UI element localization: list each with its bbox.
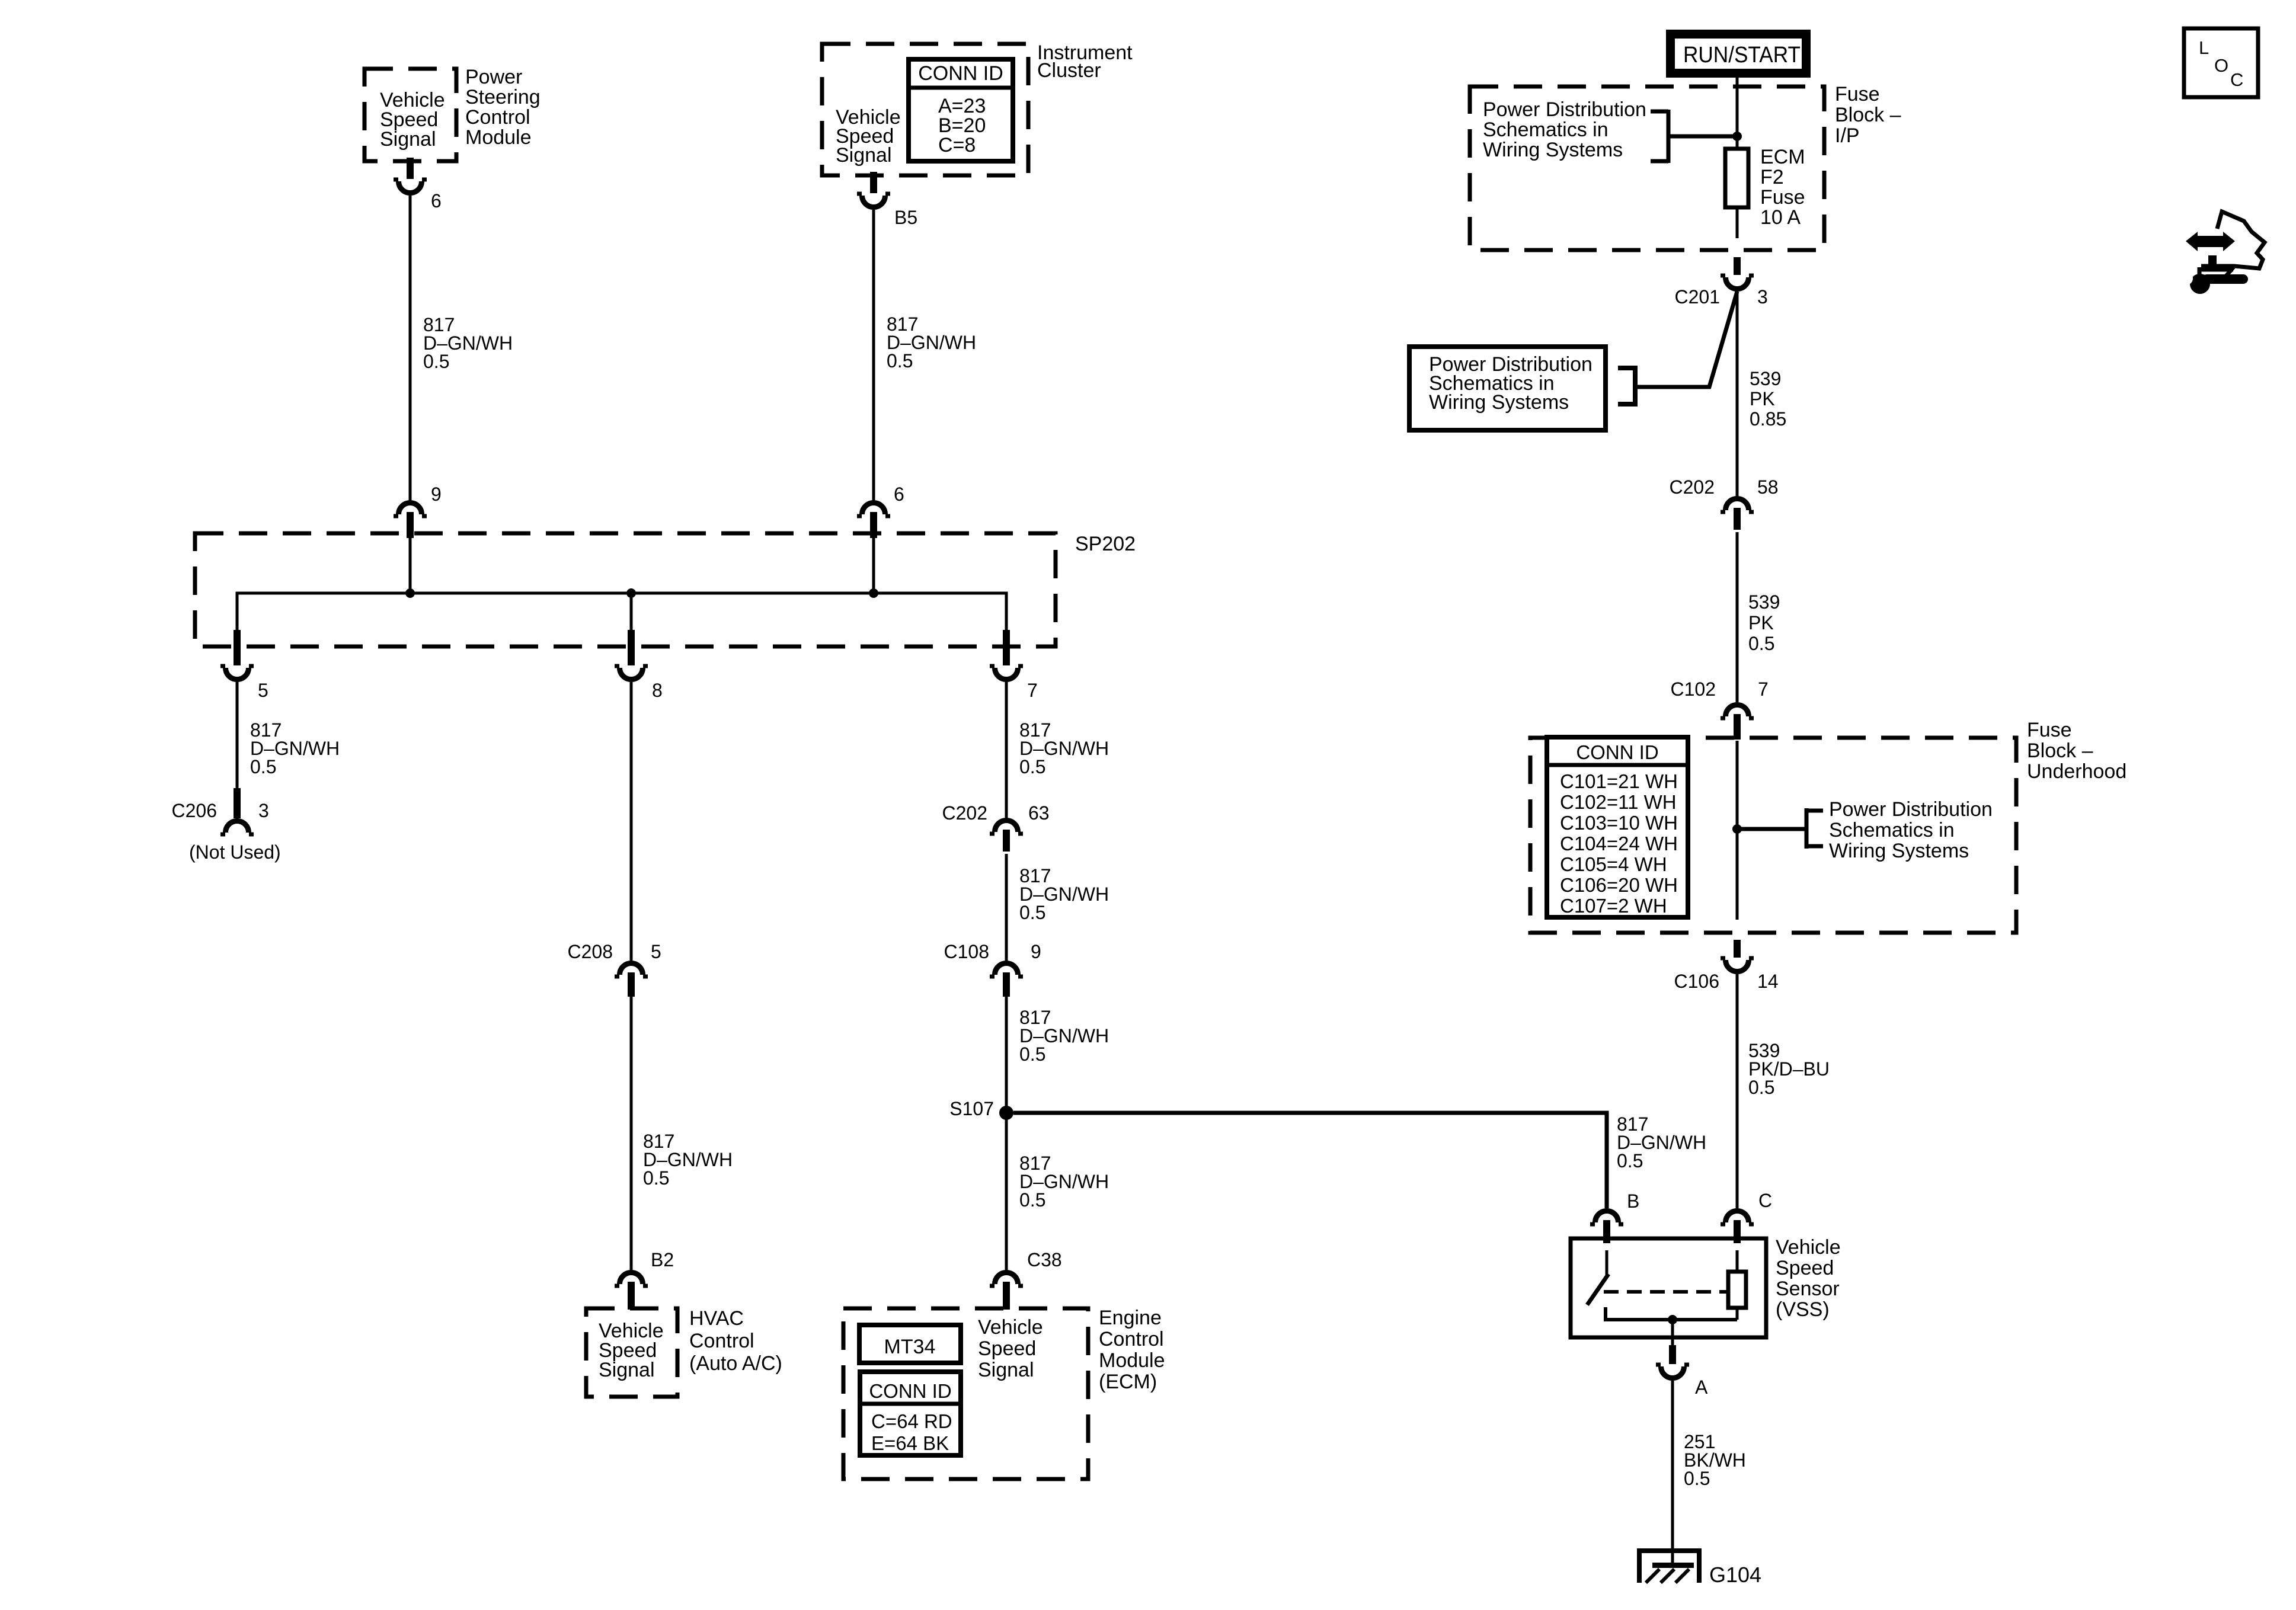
svg-text:B2: B2 xyxy=(651,1249,674,1270)
svg-text:G104: G104 xyxy=(1709,1563,1761,1587)
svg-text:C202: C202 xyxy=(1670,476,1715,498)
svg-text:I/P: I/P xyxy=(1835,124,1860,147)
svg-text:C102=11 WH: C102=11 WH xyxy=(1560,791,1677,813)
svg-text:Control: Control xyxy=(1099,1328,1164,1350)
svg-text:PK: PK xyxy=(1748,612,1774,633)
svg-text:3: 3 xyxy=(1757,286,1768,308)
svg-text:RUN/START: RUN/START xyxy=(1683,43,1801,68)
svg-text:5: 5 xyxy=(258,680,268,701)
svg-text:E=64 BK: E=64 BK xyxy=(871,1432,949,1454)
svg-text:0.5: 0.5 xyxy=(1748,633,1774,654)
svg-text:7: 7 xyxy=(1027,680,1038,701)
svg-text:Schematics in: Schematics in xyxy=(1483,119,1609,141)
svg-text:C206: C206 xyxy=(172,800,218,821)
svg-text:O: O xyxy=(2214,55,2228,76)
svg-text:CONN ID: CONN ID xyxy=(918,62,1003,85)
svg-text:(ECM): (ECM) xyxy=(1099,1371,1157,1393)
svg-text:Module: Module xyxy=(465,126,532,149)
svg-text:(Not Used): (Not Used) xyxy=(189,841,281,863)
svg-text:C=64 RD: C=64 RD xyxy=(871,1410,952,1432)
svg-text:58: 58 xyxy=(1757,476,1779,498)
svg-text:0.5: 0.5 xyxy=(1019,756,1045,777)
svg-text:(VSS): (VSS) xyxy=(1776,1298,1830,1321)
svg-text:C202: C202 xyxy=(942,802,988,824)
svg-text:C38: C38 xyxy=(1027,1249,1062,1270)
svg-text:0.5: 0.5 xyxy=(643,1167,669,1189)
svg-text:B5: B5 xyxy=(894,207,917,228)
svg-text:10 A: 10 A xyxy=(1760,206,1801,229)
svg-text:0.5: 0.5 xyxy=(1684,1468,1710,1489)
svg-text:C106: C106 xyxy=(1674,971,1720,992)
svg-text:C103=10 WH: C103=10 WH xyxy=(1560,812,1678,834)
svg-text:Signal: Signal xyxy=(978,1359,1034,1381)
svg-text:A: A xyxy=(1695,1377,1708,1398)
svg-text:6: 6 xyxy=(431,190,442,212)
svg-text:Fuse: Fuse xyxy=(1835,83,1880,105)
svg-text:C101=21 WH: C101=21 WH xyxy=(1560,770,1678,792)
svg-text:Power Distribution: Power Distribution xyxy=(1829,798,1993,821)
svg-text:0.5: 0.5 xyxy=(1748,1077,1774,1098)
svg-text:SP202: SP202 xyxy=(1075,533,1136,555)
svg-text:B: B xyxy=(1627,1190,1639,1212)
svg-text:0.5: 0.5 xyxy=(1617,1150,1643,1172)
svg-text:Power Distribution: Power Distribution xyxy=(1483,98,1646,121)
svg-text:Steering: Steering xyxy=(465,86,541,108)
svg-text:0.5: 0.5 xyxy=(423,351,449,372)
svg-text:HVAC: HVAC xyxy=(689,1307,744,1330)
svg-text:539: 539 xyxy=(1750,368,1781,389)
svg-text:Fuse: Fuse xyxy=(2027,719,2072,741)
svg-text:Engine: Engine xyxy=(1099,1307,1162,1329)
svg-text:539: 539 xyxy=(1748,591,1780,613)
svg-text:9: 9 xyxy=(1031,941,1041,962)
svg-text:Schematics in: Schematics in xyxy=(1829,819,1955,841)
svg-text:C208: C208 xyxy=(568,941,613,962)
svg-text:14: 14 xyxy=(1757,971,1779,992)
svg-text:7: 7 xyxy=(1758,678,1769,700)
svg-text:CONN ID: CONN ID xyxy=(869,1380,951,1402)
svg-text:0.5: 0.5 xyxy=(887,350,913,372)
svg-text:C104=24 WH: C104=24 WH xyxy=(1560,833,1678,854)
svg-text:63: 63 xyxy=(1028,802,1050,824)
svg-text:0.5: 0.5 xyxy=(1019,1189,1045,1211)
svg-text:Signal: Signal xyxy=(836,144,892,167)
svg-text:Wiring Systems: Wiring Systems xyxy=(1429,391,1569,414)
svg-text:Wiring Systems: Wiring Systems xyxy=(1483,139,1623,161)
svg-text:Signal: Signal xyxy=(380,128,436,151)
svg-text:C=8: C=8 xyxy=(938,134,976,156)
svg-text:Module: Module xyxy=(1099,1349,1165,1372)
svg-text:C107=2 WH: C107=2 WH xyxy=(1560,895,1667,917)
svg-text:Block –: Block – xyxy=(2027,740,2093,762)
svg-text:Control: Control xyxy=(689,1330,754,1352)
svg-text:0.5: 0.5 xyxy=(1019,1044,1045,1065)
svg-text:Vehicle: Vehicle xyxy=(978,1316,1043,1339)
svg-text:Signal: Signal xyxy=(599,1359,655,1381)
svg-text:Underhood: Underhood xyxy=(2027,760,2126,783)
svg-text:C102: C102 xyxy=(1671,678,1716,700)
svg-text:C106=20 WH: C106=20 WH xyxy=(1560,874,1678,896)
svg-text:Wiring Systems: Wiring Systems xyxy=(1829,840,1969,862)
svg-text:Control: Control xyxy=(465,106,530,129)
svg-text:6: 6 xyxy=(894,484,904,505)
svg-text:C: C xyxy=(2230,69,2243,90)
svg-text:8: 8 xyxy=(652,680,663,701)
svg-text:C105=4 WH: C105=4 WH xyxy=(1560,853,1667,875)
svg-text:Speed: Speed xyxy=(1776,1257,1834,1279)
svg-text:S107: S107 xyxy=(949,1098,994,1119)
svg-text:Sensor: Sensor xyxy=(1776,1278,1840,1300)
svg-text:Cluster: Cluster xyxy=(1037,59,1101,82)
svg-text:C108: C108 xyxy=(944,941,990,962)
svg-text:Speed: Speed xyxy=(978,1337,1036,1360)
svg-text:0.85: 0.85 xyxy=(1750,408,1786,430)
svg-text:Block –: Block – xyxy=(1835,104,1901,126)
svg-text:MT34: MT34 xyxy=(884,1336,936,1358)
svg-text:Vehicle: Vehicle xyxy=(1776,1236,1841,1259)
svg-text:C: C xyxy=(1758,1190,1772,1211)
svg-text:ECM: ECM xyxy=(1760,146,1805,168)
svg-text:CONN ID: CONN ID xyxy=(1576,741,1658,763)
svg-text:9: 9 xyxy=(431,484,442,505)
svg-text:0.5: 0.5 xyxy=(1019,902,1045,923)
svg-text:3: 3 xyxy=(258,800,269,821)
svg-text:5: 5 xyxy=(651,941,661,962)
svg-text:(Auto A/C): (Auto A/C) xyxy=(689,1352,782,1375)
svg-text:PK: PK xyxy=(1750,388,1775,409)
svg-text:C201: C201 xyxy=(1675,286,1721,308)
svg-text:L: L xyxy=(2199,37,2209,58)
svg-text:F2: F2 xyxy=(1760,166,1784,188)
svg-text:Fuse: Fuse xyxy=(1760,186,1805,209)
svg-text:0.5: 0.5 xyxy=(250,756,276,777)
svg-text:Power: Power xyxy=(465,66,522,88)
